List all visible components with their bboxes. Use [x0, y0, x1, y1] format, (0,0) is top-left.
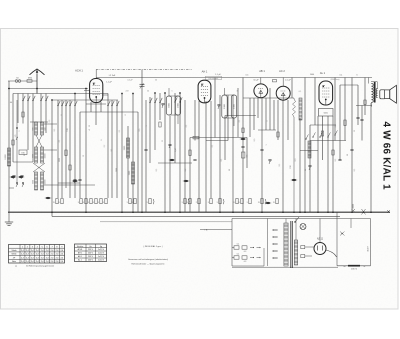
svg-text:1,1 µF: 1,1 µF	[106, 82, 112, 84]
svg-text:0,1: 0,1	[119, 130, 121, 133]
svg-text:15: 15	[233, 202, 235, 204]
svg-text:3: 3	[78, 202, 79, 204]
svg-text:3: 3	[103, 202, 104, 204]
svg-text:AZ 11: AZ 11	[317, 237, 324, 240]
svg-text:0,1: 0,1	[279, 164, 281, 167]
svg-text:0,2: 0,2	[104, 145, 106, 148]
svg-text:15: 15	[258, 202, 260, 204]
svg-text:2x8: 2x8	[126, 91, 129, 93]
svg-text:1: 1	[146, 126, 148, 127]
svg-text:AL 1: AL 1	[320, 71, 326, 75]
svg-text:2x2,5 V: 2x2,5 V	[98, 249, 105, 251]
svg-text:5: 5	[147, 202, 148, 204]
svg-text:Ua: Ua	[89, 246, 91, 248]
svg-text:mit Röhrenspannung gemessen: mit Röhrenspannung gemessen	[26, 265, 54, 268]
svg-text:0,1: 0,1	[239, 120, 241, 123]
svg-text:1: 1	[266, 144, 268, 145]
svg-text:0,5: 0,5	[246, 75, 249, 77]
svg-text:(R30, Ders): (R30, Ders)	[331, 78, 340, 81]
svg-text:0,1: 0,1	[54, 129, 56, 132]
svg-text:0,1: 0,1	[354, 169, 356, 172]
svg-text:3: 3	[83, 202, 84, 204]
svg-text:50: 50	[155, 80, 157, 82]
svg-text:0,5: 0,5	[186, 125, 188, 128]
svg-text:50: 50	[147, 91, 149, 93]
svg-text:4 W 66 K/AL 1: 4 W 66 K/AL 1	[381, 122, 392, 191]
svg-text:3: 3	[208, 202, 209, 204]
svg-text:2x2,5 V: 2x2,5 V	[98, 253, 105, 255]
svg-text:0,3: 0,3	[295, 159, 297, 162]
svg-text:50 µF: 50 µF	[253, 80, 259, 82]
svg-text:0,1: 0,1	[111, 149, 113, 152]
svg-text:AL 1: AL 1	[78, 259, 82, 262]
svg-text:0,1: 0,1	[299, 91, 302, 93]
svg-text:6: 6	[356, 75, 357, 77]
svg-text:5000: 5000	[59, 158, 61, 162]
svg-text:0,1: 0,1	[212, 145, 214, 148]
svg-text:8: 8	[125, 114, 127, 115]
svg-text:0,1: 0,1	[237, 254, 240, 256]
svg-text:0,1: 0,1	[59, 140, 61, 143]
svg-text:255 V: 255 V	[88, 260, 93, 262]
svg-text:5000: 5000	[310, 74, 314, 76]
svg-text:0,5: 0,5	[139, 129, 141, 132]
svg-text:50: 50	[89, 125, 91, 127]
svg-text:255 V: 255 V	[88, 253, 93, 255]
svg-text:6.3: 6.3	[244, 261, 247, 263]
svg-text:( 4W 66 K/AL 1 gez. ): ( 4W 66 K/AL 1 gez. )	[143, 245, 162, 248]
svg-text:3: 3	[93, 202, 94, 204]
svg-text:255 V: 255 V	[88, 256, 93, 258]
svg-text:10: 10	[83, 155, 85, 157]
svg-text:25: 25	[305, 169, 307, 171]
svg-text:Skala: Skala	[11, 250, 17, 252]
svg-text:0,5 µF: 0,5 µF	[127, 80, 133, 82]
svg-text:Netz: Netz	[12, 260, 16, 263]
svg-text:2x2,5 V: 2x2,5 V	[98, 256, 105, 258]
svg-text:5: 5	[132, 202, 133, 204]
svg-text:0,1: 0,1	[335, 159, 337, 162]
svg-text:L2 3x8: L2 3x8	[109, 75, 116, 77]
svg-text:15: 15	[238, 202, 240, 204]
svg-text:0,1: 0,1	[237, 244, 240, 246]
svg-text:5: 5	[172, 91, 173, 93]
svg-text:6.3: 6.3	[244, 251, 247, 253]
svg-text:500: 500	[45, 128, 47, 131]
svg-text:10000: 10000	[45, 180, 47, 185]
svg-text:5: 5	[182, 202, 183, 204]
svg-text:0,1: 0,1	[221, 159, 223, 162]
svg-text:3000: 3000	[33, 154, 35, 158]
svg-text:AC 2: AC 2	[279, 69, 285, 73]
svg-text:Röhrenvoltmeter — Spannungswer: Röhrenvoltmeter — Spannungswerte	[132, 263, 166, 266]
svg-text:15: 15	[58, 202, 60, 204]
svg-text:45307 b: 45307 b	[351, 268, 357, 270]
svg-text:5000: 5000	[324, 112, 328, 114]
svg-text:2x2,5 V: 2x2,5 V	[98, 260, 105, 262]
svg-text:3000: 3000	[33, 180, 35, 184]
svg-text:0,1: 0,1	[156, 169, 158, 172]
svg-text:0,2: 0,2	[185, 169, 187, 172]
svg-text:5: 5	[247, 202, 248, 204]
svg-text:AB 1: AB 1	[259, 69, 265, 73]
svg-text:2000: 2000	[116, 168, 118, 172]
svg-text:ACH1: ACH1	[78, 248, 83, 251]
svg-text:5: 5	[187, 202, 188, 204]
svg-text:ACH 1: ACH 1	[75, 68, 83, 72]
svg-text:3: 3	[237, 91, 238, 93]
svg-text:3: 3	[88, 202, 89, 204]
svg-text:0,3: 0,3	[49, 120, 51, 123]
svg-text:0,1 µF: 0,1 µF	[285, 80, 291, 82]
svg-text:AB 1: AB 1	[78, 255, 82, 258]
svg-text:1,1 µF: 1,1 µF	[215, 74, 221, 76]
svg-text:15: 15	[273, 202, 275, 204]
svg-text:0,1: 0,1	[335, 125, 337, 128]
svg-text:Gemessen mit hochohmigem (unbe: Gemessen mit hochohmigem (unbelastetem)	[128, 258, 168, 261]
svg-text:Ug: Ug	[100, 246, 102, 248]
svg-text:0,5: 0,5	[247, 155, 249, 158]
svg-text:25: 25	[162, 140, 164, 142]
svg-text:5: 5	[19, 131, 21, 132]
svg-text:AH 1: AH 1	[78, 252, 82, 255]
svg-text:15: 15	[53, 202, 55, 204]
svg-text:3: 3	[98, 202, 99, 204]
svg-text:255 V: 255 V	[88, 249, 93, 251]
svg-text:50: 50	[354, 130, 356, 132]
svg-text:10000: 10000	[5, 153, 7, 159]
svg-text:50: 50	[347, 154, 349, 156]
svg-text:100: 100	[67, 128, 69, 131]
svg-text:0,1: 0,1	[340, 75, 343, 77]
svg-text:6: 6	[101, 139, 103, 140]
svg-text:AH 1: AH 1	[202, 69, 208, 73]
svg-text:W: W	[24, 154, 26, 156]
svg-text:0,5: 0,5	[254, 139, 256, 142]
svg-text:5: 5	[127, 202, 128, 204]
svg-text:5: 5	[217, 202, 218, 204]
svg-text:2: 2	[196, 202, 197, 204]
svg-text:Schalter: Schalter	[77, 245, 84, 248]
svg-text:4: 4	[89, 129, 91, 130]
svg-text:2: 2	[267, 121, 269, 122]
svg-text:50: 50	[229, 169, 231, 171]
svg-text:500: 500	[33, 128, 35, 131]
svg-text:45307: 45307	[368, 246, 370, 251]
svg-text:10000: 10000	[45, 154, 47, 159]
svg-text:WELLENBER.: WELLENBER.	[208, 78, 219, 80]
